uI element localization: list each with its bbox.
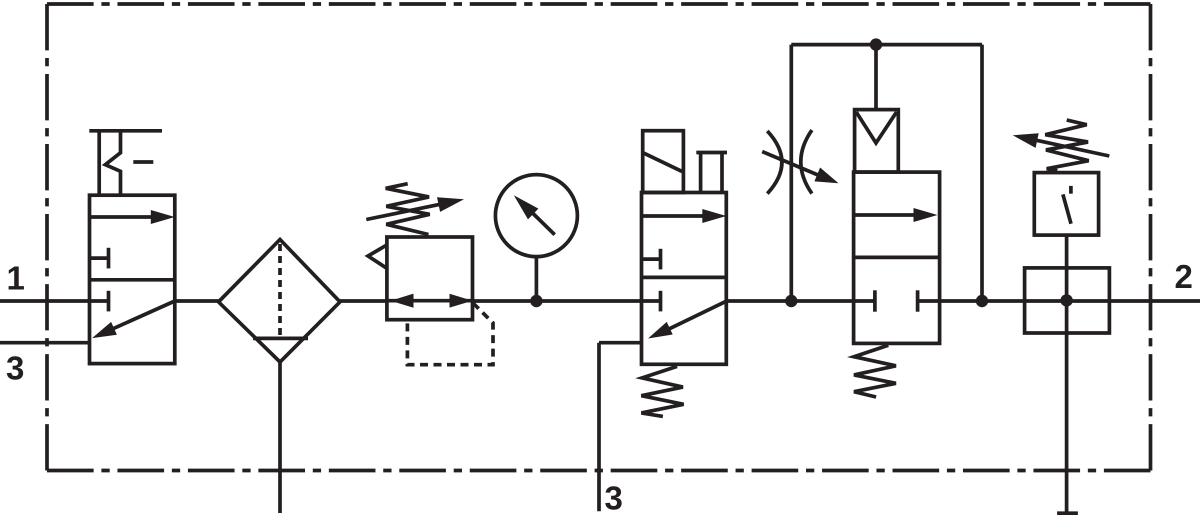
wire F1 to regulator R1 (340, 299, 387, 303)
pressure switch S1 adjustment arrow (1013, 133, 1110, 156)
pressure switch S1 sensing body (1025, 268, 1110, 333)
pressure switch S1 electric contact box (1034, 173, 1098, 236)
wire V2 exhaust to port 3 (bottom) (599, 343, 643, 512)
pressure switch S1 adjustment spring (1045, 120, 1088, 171)
wire throttle branch riser (789, 45, 793, 301)
node downstream feedback junction (976, 295, 988, 307)
valve V2 body (solenoid 3/2-way valve) (642, 193, 727, 365)
wire downstream feedback riser (980, 45, 984, 301)
valve V2 blocked port (upper position) (642, 249, 661, 270)
wire S1 drain end tick (1057, 511, 1078, 515)
wire pilot header line (791, 43, 982, 47)
wire gauge stem (535, 257, 539, 302)
filter F1 with water separator (diamond) (219, 240, 341, 363)
valve V1 blocked port (upper position) (90, 248, 109, 269)
wire V1 to filter F1 (175, 299, 219, 303)
regulator R1 body (pressure regulating valve) (387, 237, 473, 320)
regulator R1 pilot feedback line (dashed) (407, 303, 493, 365)
valve V2 solenoid coil (643, 131, 684, 193)
valve V3 blocked port left (lower position) (854, 290, 875, 311)
node throttle branch junction (785, 295, 797, 307)
node gauge junction (530, 295, 542, 307)
svg-text:3: 3 (6, 350, 24, 387)
valve V2 blocked port (lower position) (642, 291, 661, 312)
check valve pilot head of V3 (855, 110, 899, 173)
regulator R1 flow path with arrows (387, 294, 473, 308)
valve V3 blocked port right (lower position) (918, 290, 940, 311)
valve V2 manual override (696, 153, 727, 193)
svg-text:2: 2 (1175, 258, 1193, 295)
svg-text:3: 3 (605, 480, 623, 517)
wire pilot drop to check valve (874, 45, 878, 110)
valve V1 blocked port (lower position) (90, 291, 109, 312)
valve V3 body (piloted 2/2-way soft-start valve) (854, 172, 940, 343)
valve V1 manual detent actuator (89, 131, 162, 195)
valve V3 flow path arrow (upper position) (854, 208, 938, 222)
valve V1 flow path arrow (upper position) (90, 210, 175, 224)
throttle valve (adjustable flow restrictor) (762, 130, 838, 194)
regulator R1 side spring (368, 245, 387, 269)
valve V2 flow path arrow (upper position) (642, 209, 727, 223)
wire V3 to pressure switch S1 and port 2 (940, 299, 1200, 303)
node pilot header junction (870, 38, 882, 50)
valve V1 exhaust path arrow (lower position) (92, 301, 175, 338)
valve V2 exhaust path arrow (lower position) (648, 301, 726, 338)
wire S1 sensing stem (1065, 235, 1069, 513)
wire R1 to valve V2 (through gauge node) (473, 299, 642, 303)
wire condensate drain line of F1 (278, 362, 282, 513)
svg-text:1: 1 (7, 260, 25, 297)
valve V2 return spring (641, 366, 683, 416)
pressure gauge G1 (495, 175, 577, 257)
node 1 supply line (port 1) (0, 299, 90, 303)
node S1 junction (1060, 294, 1072, 306)
valve V1 body (manual 3/2-way shut-off valve) (90, 195, 175, 363)
regulator R1 adjustment arrow (366, 197, 464, 219)
valve V3 return spring (854, 345, 896, 397)
wire V2 to valve V3 (726, 299, 853, 303)
regulator R1 adjustment spring (386, 184, 430, 235)
wire exhaust line to port 3 of valve V1 (0, 341, 90, 345)
